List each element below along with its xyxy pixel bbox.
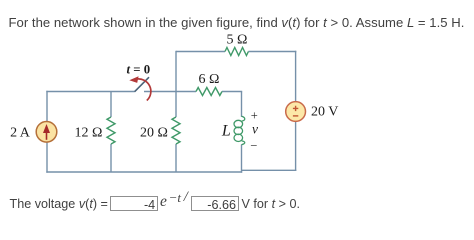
resistor 12-ohm (107, 117, 115, 144)
wire: 12-ohm branch vertical bottom (110, 144, 112, 172)
wire: 20-ohm / top-loop left vertical (x=176) (175, 51, 177, 117)
svg-text:6 Ω: 6 Ω (199, 72, 220, 87)
svg-text:2 A: 2 A (10, 125, 31, 140)
resistor 5-ohm (top loop) (225, 48, 248, 56)
wire: inductor branch vertical bottom (241, 145, 243, 173)
current source arrow (46, 130, 48, 140)
wire: 20-ohm branch vertical bottom (175, 144, 177, 172)
wire: 12-ohm branch vertical top (110, 92, 112, 118)
svg-text:−: − (250, 138, 257, 152)
wire: top loop horizontal right of 5-ohm (248, 51, 296, 53)
wire: right vertical branch with 20V source (295, 51, 297, 171)
wire: bottom horizontal left section (46, 171, 242, 173)
svg-text:20 V: 20 V (311, 104, 338, 119)
wire: inductor branch vertical top (241, 92, 243, 117)
resistor 6-ohm (series with switch) (196, 88, 222, 96)
wire: top-left horizontal from left branch to switch (46, 91, 135, 93)
inductor L coil (234, 116, 245, 145)
voltage source minus (293, 115, 298, 117)
wire: left vertical branch with current source (46, 91, 48, 173)
answer sentence (0, 0, 474, 40)
wire: bottom horizontal right section (slightly higher) (242, 169, 297, 171)
voltage source plus (293, 106, 298, 111)
wire: switch right contact to 6-ohm resistor (144, 91, 196, 93)
svg-text:20 Ω: 20 Ω (140, 125, 168, 140)
svg-text:+: + (251, 109, 258, 123)
wire: top loop horizontal left of 5-ohm (176, 51, 225, 53)
switch (opens at t=0): blade (135, 77, 149, 92)
answer box 2 (191, 196, 239, 211)
switch action arc (red) (136, 79, 151, 101)
voltage source 20V circle (286, 102, 306, 122)
answer box 1 (110, 196, 158, 211)
svg-text:t = 0: t = 0 (127, 63, 151, 77)
wire: 6-ohm right end to inductor branch top corner (222, 91, 242, 93)
switch arc arrowhead (129, 76, 138, 83)
svg-text:12 Ω: 12 Ω (75, 125, 103, 140)
svg-text:L: L (221, 122, 231, 139)
question text (9, 15, 465, 30)
svg-text:v: v (252, 122, 258, 137)
resistor 20-ohm (172, 117, 180, 144)
current source 2A circle (36, 122, 57, 143)
